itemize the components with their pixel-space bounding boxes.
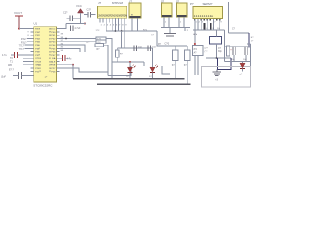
wire VCC drop to U1 pin 40 xyxy=(59,24,66,29)
wire P3.0 xyxy=(27,38,34,40)
wire T0 xyxy=(23,57,31,59)
wire VCC stem xyxy=(18,16,20,29)
wire S2 stub down xyxy=(184,28,186,32)
capacitor E2 plates xyxy=(233,47,235,55)
node dot row 38.5 xyxy=(65,38,67,40)
wire Y2 bottom xyxy=(215,44,217,58)
node bus dot 1 xyxy=(115,30,117,32)
wire bus horizontal xyxy=(106,30,157,32)
node bus dot 2 xyxy=(121,30,123,32)
svg-text:34: 34 xyxy=(49,48,51,50)
node RST junction dot xyxy=(18,28,20,30)
svg-text:SEPM?: SEPM? xyxy=(203,2,213,6)
svg-text:9: 9 xyxy=(39,28,40,30)
connector P1 dark pin row xyxy=(194,19,220,21)
svg-text:C?0: C?0 xyxy=(165,42,170,45)
capacitor C4 plates xyxy=(71,26,74,32)
svg-text:C3?: C3? xyxy=(87,9,92,12)
svg-text:5: 5 xyxy=(39,45,40,47)
svg-text:77L?: 77L? xyxy=(19,48,25,51)
power VCC bar symbol xyxy=(15,15,23,17)
svg-text:2.2.2.2.2.2.2.2.2w: 2.2.2.2.2.2.2.2.2w xyxy=(194,15,213,18)
wire T1 xyxy=(23,61,31,63)
wire right vertical a xyxy=(194,30,196,46)
svg-text:33: 33 xyxy=(49,51,51,53)
connector P1 pin stubs xyxy=(195,19,220,30)
wire P3.1 xyxy=(27,41,34,43)
wire dark vertical right xyxy=(248,33,250,48)
svg-text:VCC?: VCC? xyxy=(14,11,22,15)
svg-text:1?C: 1?C xyxy=(96,30,100,32)
wire C1 to U1 xyxy=(18,54,31,56)
wire switch row xyxy=(161,27,190,29)
svg-text:P?: P? xyxy=(190,2,194,6)
wire right bottom horizontal xyxy=(225,61,251,63)
switch S1 body xyxy=(162,3,173,17)
svg-text:22: 22 xyxy=(39,71,41,73)
svg-text:4.7uF: 4.7uF xyxy=(75,28,81,30)
wire left drop to rail xyxy=(111,62,113,79)
svg-text:2: 2 xyxy=(39,35,40,37)
svg-text:37: 37 xyxy=(49,38,51,40)
svg-text:WR: WR xyxy=(8,64,12,67)
wire corner left xyxy=(162,66,170,74)
capacitor C3 plates xyxy=(88,12,91,17)
resistor R5 vertical body xyxy=(226,46,229,56)
wire INT0 xyxy=(25,44,31,46)
connector J1 body xyxy=(97,6,126,18)
wire C1 left stub xyxy=(11,54,15,56)
diode D3 xyxy=(240,62,245,72)
capacitor C7 plates xyxy=(164,34,176,37)
wire caps row horizontal xyxy=(225,46,251,48)
wire Y2 top xyxy=(216,30,218,36)
crystal Y1 stubs xyxy=(132,18,138,31)
svg-text:1: 1 xyxy=(39,32,40,34)
capacitor C9 bottom stem xyxy=(245,55,247,62)
IC U1 body xyxy=(34,27,57,82)
svg-text:21: 21 xyxy=(39,68,41,70)
svg-text:STC89C52RC: STC89C52RC xyxy=(33,83,53,87)
wire GND rail lower xyxy=(97,83,191,85)
svg-text:3: 3 xyxy=(39,38,40,40)
svg-text:U1: U1 xyxy=(34,22,38,26)
svg-text:36: 36 xyxy=(49,42,51,44)
wire far right vertical xyxy=(249,44,251,67)
crystal Y2 body xyxy=(210,36,222,44)
resistor R4 vertical body xyxy=(116,50,120,57)
component K1 stem bottom xyxy=(174,61,176,79)
svg-text:ALE: ALE xyxy=(51,60,56,63)
wire C2 left stub xyxy=(67,17,71,19)
svg-text:J?: J? xyxy=(98,1,101,5)
switch S2 dark base xyxy=(177,15,187,17)
IC U1 right pin stubs xyxy=(56,29,59,72)
capacitor C6 plates xyxy=(148,45,151,51)
wire VCC horizontal xyxy=(66,23,86,25)
wire C2 to VCC stem xyxy=(73,17,81,19)
LED D1 xyxy=(127,62,135,79)
capacitor C5 plates xyxy=(134,45,137,51)
IC U1 left pin names xyxy=(35,29,40,74)
wire C10 right xyxy=(65,57,70,59)
IC U1 left pin numbers column xyxy=(39,28,41,73)
component K1 body xyxy=(172,50,178,61)
node red dot right xyxy=(194,43,196,45)
svg-text:VCC: VCC xyxy=(76,4,82,8)
svg-text:7: 7 xyxy=(39,51,40,53)
wire P0 row 41.8 xyxy=(59,41,96,43)
wire right edge stub xyxy=(247,43,250,45)
module box outline xyxy=(202,67,251,87)
resistor R3 box xyxy=(96,40,106,43)
svg-text:6: 6 xyxy=(39,48,40,50)
switch S1 dark base xyxy=(162,15,172,17)
switch S2 stubs xyxy=(179,17,184,28)
svg-text:31: 31 xyxy=(49,58,51,60)
wire RST to U1 xyxy=(19,28,34,30)
svg-text:40: 40 xyxy=(49,28,51,30)
wire X1 down b xyxy=(197,56,199,76)
wire VCC2 stem xyxy=(80,13,82,24)
svg-text:27: 27 xyxy=(49,71,51,73)
svg-text:m: m xyxy=(131,15,133,17)
connector P1 body xyxy=(193,7,223,19)
wire ALE to rail xyxy=(59,65,73,79)
capacitor E2 bottom stem xyxy=(233,55,235,62)
svg-text:18: 18 xyxy=(39,61,41,63)
svg-text:(3uF: (3uF xyxy=(1,76,6,79)
component X1 body xyxy=(193,46,204,56)
wire C10 left xyxy=(59,57,62,59)
switch S2 body xyxy=(177,3,188,17)
wire X1 down a xyxy=(194,56,196,76)
node LED1 dot xyxy=(129,61,131,63)
wire right top horizontal xyxy=(228,32,249,34)
IC U1 right pin names xyxy=(51,29,56,74)
wire to LED D2 xyxy=(152,48,154,67)
connector P1 pin numbers xyxy=(196,22,223,30)
capacitor C9 plates xyxy=(245,47,247,55)
capacitor row wire xyxy=(117,47,152,49)
wire R3 right corner down xyxy=(104,45,109,75)
wire cap feed vertical 1 xyxy=(121,31,123,48)
svg-text:4.7u: 4.7u xyxy=(2,54,7,57)
svg-text:19: 19 xyxy=(39,58,41,60)
svg-text:29: 29 xyxy=(49,65,51,67)
pin number labels right of U1 xyxy=(61,34,64,53)
capacitor E1 plates xyxy=(19,72,22,79)
node ALE junction dot xyxy=(72,64,74,66)
wire cap feed vertical 2 xyxy=(124,31,126,48)
crystal Y1 body xyxy=(129,3,141,18)
resistor R6 box xyxy=(95,44,104,47)
IC U1 right pin numbers column xyxy=(49,28,51,73)
wire PSEN loop xyxy=(59,68,108,72)
IC U1 left pin stubs xyxy=(31,29,34,72)
wire E1 left xyxy=(13,75,19,77)
svg-text:C2?: C2? xyxy=(63,12,68,15)
svg-text:39: 39 xyxy=(49,32,51,34)
wire R4 bottom stem xyxy=(116,57,118,62)
node VCC junction dot xyxy=(84,23,86,25)
capacitor C10 red plates xyxy=(62,55,65,61)
wire GND rail upper xyxy=(73,78,185,80)
wire LED top rail xyxy=(112,61,144,63)
svg-text:28: 28 xyxy=(49,68,51,70)
wire left vertical right block xyxy=(224,30,226,62)
resistor R2 box xyxy=(96,37,106,40)
component K2 stem top xyxy=(186,46,188,50)
svg-text:8: 8 xyxy=(39,55,40,57)
connector P1 thick pin marks xyxy=(204,23,206,30)
svg-text:4.7u: 4.7u xyxy=(67,59,72,61)
svg-text:32: 32 xyxy=(49,55,51,57)
svg-text:38: 38 xyxy=(49,35,51,37)
crystal Y1 dark base xyxy=(130,16,141,18)
svg-text:E?.?: E?.? xyxy=(9,69,15,72)
component K2 body xyxy=(184,50,190,61)
wire row 48 xyxy=(59,48,80,52)
svg-text:->*: ->* xyxy=(239,73,242,76)
wire E1 to U1 xyxy=(22,75,34,77)
wire bus corner to reset row xyxy=(157,31,187,46)
wire right stub xyxy=(143,62,145,66)
capacitor C7 stem xyxy=(169,28,171,34)
switch pin labels xyxy=(165,22,182,24)
svg-text:4: 4 xyxy=(39,42,40,44)
svg-text:20: 20 xyxy=(39,65,41,67)
svg-text:MTP2L8: MTP2L8 xyxy=(112,1,123,5)
ground symbol xyxy=(212,70,221,76)
power VCC2 triangle xyxy=(78,9,84,13)
component K2 stem bottom xyxy=(186,61,188,85)
wire WR xyxy=(23,64,31,66)
wire P0 row 38.5 xyxy=(59,38,96,40)
wire row 45 xyxy=(59,45,85,52)
wire C3 stub xyxy=(91,14,96,16)
wire top right vertical xyxy=(227,2,229,33)
LED D2 xyxy=(150,64,158,78)
switch S1 stubs xyxy=(164,17,169,28)
svg-text:PSE: PSE xyxy=(51,65,56,67)
wire mid horizontal y58 xyxy=(206,57,231,59)
wire R4 top stem xyxy=(116,48,118,50)
wire right bus horizontal xyxy=(193,29,224,31)
connector J1 pin stubs xyxy=(100,18,125,31)
svg-text:30: 30 xyxy=(49,61,51,63)
component K1 stem top xyxy=(174,46,176,50)
wire dark U loop xyxy=(218,58,232,70)
connector J1 pin numbers xyxy=(101,25,128,27)
wire R2 right to bus xyxy=(106,39,112,63)
node dot y58 xyxy=(216,57,218,59)
svg-text:35: 35 xyxy=(49,45,51,47)
svg-text:2M2N2M2R2M2N2M2R2M: 2M2N2M2R2M2N2M2R2M xyxy=(98,15,127,18)
capacitor C2 plates xyxy=(70,16,73,22)
svg-text:VCC: VCC xyxy=(51,29,56,31)
wire INT1 xyxy=(25,47,31,49)
wire loop bottom xyxy=(108,66,131,76)
capacitor C1 red plates xyxy=(15,52,18,58)
wire C3 to stem xyxy=(84,14,88,16)
